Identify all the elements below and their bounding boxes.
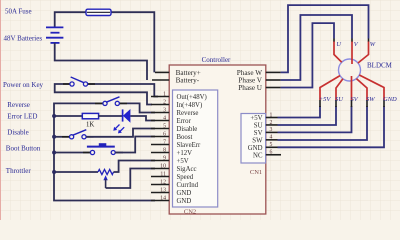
CN1 pin 2 SU (254, 120, 278, 130)
wire LED to pin4 (130, 116, 155, 121)
label Disable (7, 128, 28, 136)
wire power key loop pin2 side (55, 84, 152, 105)
motor pin GND (359, 75, 397, 107)
wire battery+ to fuse to controller Battery+ (55, 12, 155, 72)
fuse F1 (86, 9, 111, 15)
svg-text:Boost: Boost (177, 134, 193, 141)
CN2 pin 1 Out(+48V) (151, 91, 207, 101)
svg-text:SlaveErr: SlaveErr (177, 142, 202, 149)
label Boot Button (6, 144, 41, 152)
potentiometer RV1 thrittler (98, 169, 113, 188)
svg-text:CurrInd: CurrInd (177, 182, 199, 189)
svg-text:6: 6 (163, 131, 166, 137)
connector CN2 box (173, 90, 218, 207)
pin Phase W (237, 69, 281, 77)
wire CN1 pin1 to motor +5V (278, 106, 321, 118)
svg-text:SW: SW (366, 96, 375, 103)
svg-text:8: 8 (163, 147, 166, 153)
controller box U1 (169, 65, 266, 214)
wire power key to pin1 (88, 84, 159, 97)
svg-text:10: 10 (160, 163, 166, 169)
label 50A Fuse (5, 7, 32, 15)
wire Phase V to motor V (281, 15, 352, 80)
CN2 pin 6 Boost (151, 131, 192, 141)
CN1 pin 3 SV (254, 127, 278, 137)
pin Battery+ (155, 69, 201, 77)
wire Phase U to motor U (281, 23, 334, 87)
svg-text:SigAcc: SigAcc (177, 166, 197, 173)
switch S2 reverse (95, 97, 127, 106)
svg-text:GND: GND (383, 96, 397, 103)
motor M1 BLDCM (339, 59, 361, 81)
svg-text:Reverse: Reverse (177, 110, 199, 117)
CN2 pin 9 +5V (151, 155, 189, 165)
svg-text:SU: SU (254, 123, 263, 130)
CN1 pin 4 SW (252, 135, 277, 145)
CN2 pin 12 CurrInd (151, 179, 199, 189)
svg-text:BLDCM: BLDCM (367, 62, 393, 70)
wire thrittler row from bus (54, 171, 98, 173)
svg-text:SU: SU (335, 96, 344, 103)
CN2 pin 7 SlaveErr (151, 139, 201, 149)
wire CN1 pin3 to motor SV (278, 106, 352, 132)
motor pin +5V (319, 76, 340, 107)
svg-text:5: 5 (163, 123, 166, 129)
svg-text:W: W (370, 41, 376, 48)
svg-text:+5V: +5V (319, 96, 332, 103)
wire boot row from bus (54, 152, 90, 154)
svg-text:Controller: Controller (202, 56, 231, 64)
CN2 pin 13 GND (151, 187, 191, 197)
svg-text:Out(+48V): Out(+48V) (177, 94, 207, 101)
svg-text:50A Fuse: 50A Fuse (5, 7, 32, 15)
svg-text:SV: SV (351, 96, 359, 103)
switch S1 power on key (63, 77, 95, 86)
motor pin SV (351, 76, 359, 107)
svg-text:GND: GND (248, 145, 263, 152)
CN2 pin 10 SigAcc (151, 163, 197, 173)
CN2 pin 11 Speed (151, 171, 194, 181)
pin Battery- (152, 77, 200, 85)
wire reverse switch to pin3 (120, 103, 156, 112)
sheet border (0, 0, 2, 220)
svg-text:1: 1 (270, 112, 273, 118)
connector CN1 box (241, 114, 266, 164)
wire error LED row (54, 115, 82, 117)
CN1 pin 1 +5V (250, 112, 277, 122)
motor pin SU (335, 79, 344, 107)
junction on bus at boot row (52, 151, 56, 155)
label Power on Key (3, 81, 44, 89)
svg-text:In(+48V): In(+48V) (177, 102, 203, 109)
svg-text:3: 3 (163, 107, 166, 113)
wire CN1 pin2 to motor SU (278, 106, 337, 125)
svg-text:Battery-: Battery- (176, 77, 200, 85)
svg-text:CN2: CN2 (184, 209, 196, 216)
svg-text:Disable: Disable (7, 128, 28, 136)
label Error LED (7, 112, 37, 120)
svg-text:4: 4 (270, 135, 273, 141)
wire CN1 pin4 to motor SW (278, 106, 368, 140)
svg-text:SW: SW (252, 137, 263, 144)
svg-text:GND: GND (177, 198, 192, 205)
svg-text:Throttler: Throttler (6, 167, 32, 175)
svg-text:13: 13 (160, 187, 166, 193)
pushbutton S4 boot (83, 143, 123, 154)
svg-text:14: 14 (160, 195, 166, 201)
pin Phase V (238, 77, 280, 85)
svg-text:GND: GND (177, 190, 192, 197)
svg-text:9: 9 (163, 155, 166, 161)
junction on bus at error row (52, 114, 56, 118)
wire resistor to LED (99, 115, 123, 117)
wire boot button to pin6 (115, 137, 155, 153)
svg-text:Power on Key: Power on Key (3, 81, 44, 89)
svg-text:+12V: +12V (177, 150, 193, 157)
wire CN1 pin5 to motor GND (278, 106, 385, 147)
wire disable switch to pin5 (86, 129, 155, 137)
label Reverse (7, 101, 30, 109)
junction on bus at disable row (52, 135, 56, 139)
svg-text:Speed: Speed (177, 174, 194, 181)
svg-text:Phase U: Phase U (238, 84, 263, 92)
svg-text:11: 11 (160, 171, 166, 177)
switch S3 disable (62, 130, 94, 139)
label CN1 (250, 169, 262, 176)
motor pin V (352, 39, 359, 65)
battery B1 48V (46, 27, 63, 43)
label CN2 (184, 209, 196, 216)
svg-text:SV: SV (254, 130, 263, 137)
svg-text:1K: 1K (86, 121, 94, 128)
svg-text:2: 2 (270, 120, 273, 126)
wire battery- to controller Battery- (55, 43, 147, 80)
wire pot right to pin9 (114, 161, 156, 173)
CN1 pin 5 GND (248, 142, 278, 152)
label 1K (86, 121, 94, 128)
svg-text:+5V: +5V (250, 115, 262, 122)
svg-text:1: 1 (163, 91, 166, 97)
wire pot wiper to pin10 (106, 169, 155, 189)
svg-text:48V Batteries: 48V Batteries (4, 35, 43, 43)
CN2 pin 2 In(+48V) (151, 99, 202, 109)
svg-text:Disable: Disable (177, 126, 198, 133)
svg-text:Error: Error (177, 118, 192, 125)
resistor R1 1K (82, 113, 98, 118)
pin Phase U (238, 84, 280, 92)
label Controller (202, 56, 231, 64)
motor pin U (334, 39, 342, 63)
CN2 pin 14 GND (151, 195, 191, 205)
svg-text:4: 4 (163, 115, 166, 121)
svg-text:NC: NC (253, 152, 263, 159)
wire Phase W to motor W (281, 5, 369, 72)
svg-text:7: 7 (163, 139, 166, 145)
CN2 pin 8 +12V (151, 147, 192, 157)
svg-text:Reverse: Reverse (7, 101, 30, 109)
label BLDCM (367, 62, 393, 70)
label 48V Batteries (4, 35, 43, 43)
svg-text:Boot Button: Boot Button (6, 144, 41, 152)
label Throttler (6, 167, 32, 175)
svg-text:6: 6 (270, 150, 273, 156)
motor pin W (358, 39, 376, 64)
svg-text:2: 2 (163, 99, 166, 105)
CN2 pin 4 Error (151, 115, 192, 125)
CN2 pin 5 Disable (151, 123, 197, 133)
svg-text:12: 12 (160, 179, 166, 185)
wire disable row from bus (54, 136, 70, 138)
svg-text:3: 3 (270, 127, 273, 133)
svg-text:5: 5 (270, 142, 273, 148)
CN1 pin 6 NC (253, 150, 281, 160)
motor pin SW (356, 79, 375, 107)
junction on bus at thrittler row (52, 170, 56, 174)
wire reverse row to bus (54, 103, 155, 200)
CN2 pin 3 Reverse (151, 107, 198, 117)
LED D1 (113, 109, 130, 133)
svg-text:Error LED: Error LED (7, 112, 37, 120)
svg-text:+5V: +5V (177, 158, 189, 165)
svg-text:CN1: CN1 (250, 169, 262, 176)
